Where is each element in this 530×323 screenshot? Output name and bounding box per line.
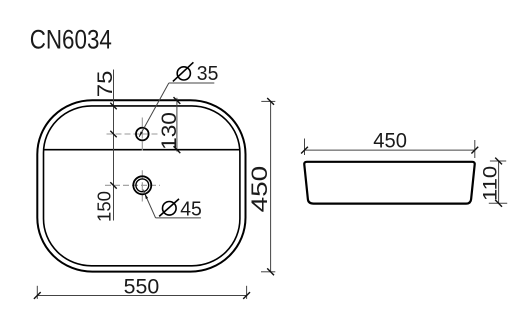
label 110	[480, 166, 502, 201]
Ø35 diameter symbol	[173, 62, 194, 81]
basin inner rim line	[44, 106, 240, 266]
450 side dim: right extension	[474, 140, 476, 158]
drain centerline vertical	[141, 170, 143, 201]
leader arrowhead drain	[145, 193, 149, 199]
label 450 (top view)	[247, 166, 272, 213]
leader underline Ø45	[156, 217, 201, 219]
svg-text:75: 75	[93, 71, 117, 98]
label 150	[94, 191, 115, 222]
leader line to drain hole	[143, 190, 156, 218]
side view profile	[304, 162, 474, 204]
Ø45 diameter symbol	[159, 199, 179, 217]
svg-text:130: 130	[158, 112, 181, 150]
450 tick top	[267, 98, 274, 105]
450 side tick right	[471, 147, 478, 154]
550 right extension line	[246, 286, 248, 299]
leader arrowhead	[139, 132, 143, 138]
basin outer outline (top view)	[37, 100, 245, 271]
leader underline Ø35	[169, 82, 215, 84]
svg-text:550: 550	[124, 273, 160, 298]
450 dimension line	[270, 101, 272, 271]
faucet hole centerline horizontal	[107, 133, 159, 135]
450 tick bottom	[267, 268, 274, 275]
left stacked dimension line	[113, 70, 115, 221]
550 dimension: left extension line	[36, 286, 38, 299]
450 bottom extension line	[261, 271, 275, 273]
drain hole inner	[136, 179, 149, 192]
450 side dimension line	[305, 149, 475, 151]
svg-text:CN6034: CN6034	[30, 25, 112, 55]
drain hole Ø45 outer	[133, 176, 151, 194]
svg-text:35: 35	[197, 63, 219, 85]
450 side dim: left extension	[304, 139, 306, 156]
svg-text:45: 45	[180, 198, 202, 220]
110 tick bottom	[495, 200, 502, 207]
550 tick left	[34, 292, 41, 299]
550 tick right	[243, 292, 250, 299]
faucet hole Ø35	[136, 128, 149, 141]
450 side tick left	[301, 147, 308, 154]
tick 130 top	[174, 97, 181, 104]
110 dimension line	[498, 161, 500, 203]
110 dim: top extension	[490, 160, 506, 162]
svg-text:150: 150	[94, 191, 115, 222]
110 tick top	[495, 158, 502, 165]
tick top edge	[110, 103, 116, 109]
130 dimension line	[176, 98, 178, 152]
tick drain level	[110, 182, 116, 188]
ledge line	[44, 149, 239, 151]
faucet hole centerline vertical	[141, 118, 143, 151]
leader line to faucet hole	[139, 83, 169, 137]
110 dim: bottom extension	[489, 202, 507, 204]
450 dimension (top view): top extension line	[261, 100, 275, 102]
svg-text:450: 450	[247, 166, 272, 213]
label 130	[158, 112, 181, 150]
svg-text:450: 450	[373, 128, 407, 153]
drain centerline horizontal	[105, 184, 160, 186]
label 75	[93, 71, 117, 98]
svg-text:110: 110	[480, 166, 502, 201]
550 dimension line	[37, 295, 246, 297]
tick faucet level	[110, 131, 116, 137]
tick 130 bottom	[174, 146, 181, 153]
